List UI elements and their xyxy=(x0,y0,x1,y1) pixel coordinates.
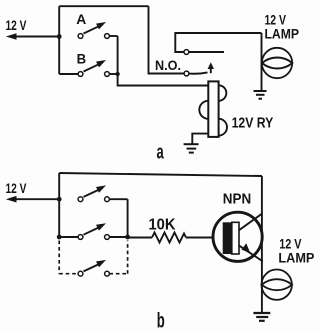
wire: rail drop to relay contact (a) xyxy=(149,6,185,73)
svg-text:NPN: NPN xyxy=(223,191,251,208)
relay contact N.O. (a) xyxy=(184,50,224,76)
wire: dashed bus extension right (b) xyxy=(127,241,129,274)
wire: S1 output (b) xyxy=(109,198,127,200)
svg-text:B: B xyxy=(77,50,87,66)
wire: right bus joining A and B outputs (a) xyxy=(118,36,209,86)
wire: switch A output (a) xyxy=(109,35,117,37)
arrowhead: to 12V supply (a) xyxy=(6,33,17,40)
svg-text:12V RY: 12V RY xyxy=(232,116,274,132)
switch S1 (b) xyxy=(78,185,109,201)
svg-text:N.O.: N.O. xyxy=(155,58,181,74)
switch B xyxy=(78,60,109,76)
svg-text:LAMP: LAMP xyxy=(278,250,314,266)
wire: dashed S3 input (b) xyxy=(59,273,78,275)
junction: S2 output node (b) xyxy=(125,235,130,240)
wire: top rail (b) xyxy=(59,173,262,176)
junction: 12V node (a) xyxy=(57,34,62,39)
junction: bus at S2 input (b) xyxy=(57,235,62,240)
wire: relay coil to ground (a) xyxy=(192,134,208,144)
wire: resistor to base (b) xyxy=(186,237,223,239)
svg-text:12 V: 12 V xyxy=(6,180,27,196)
wire: top rail (a) xyxy=(59,5,148,7)
wire: 12V feed line (b) xyxy=(13,198,59,200)
resistor R1 10K xyxy=(152,233,186,243)
svg-text:a: a xyxy=(157,141,165,163)
wire: right bus S1 to S2 (b) xyxy=(127,199,129,237)
switch A xyxy=(78,22,109,38)
wire: switch B input (a) xyxy=(59,73,78,75)
wire: fixed contact to lamp rail (a) xyxy=(175,33,261,52)
svg-text:A: A xyxy=(76,11,86,27)
svg-text:LAMP: LAMP xyxy=(265,26,300,42)
switch S2 (b) xyxy=(78,223,109,239)
svg-text:12 V: 12 V xyxy=(6,17,27,33)
wire: dashed S3 output (b) xyxy=(109,273,127,275)
wire: 12V feed line (a) xyxy=(13,36,59,38)
lamp I2 (b) xyxy=(262,270,293,300)
svg-text:10K: 10K xyxy=(149,217,177,234)
lamp I1 (a) xyxy=(262,48,293,78)
wire: dashed bus extension left (b) xyxy=(58,241,60,274)
relay coil 12V RY xyxy=(199,81,227,136)
wire: left vertical bus (b) xyxy=(58,173,60,237)
ground: emitter (b) xyxy=(253,313,270,321)
wire: left vertical bus (a) xyxy=(58,6,60,74)
wire: switch B output (a) xyxy=(109,73,117,75)
wire: S2 input (b) xyxy=(59,236,78,238)
wire: collector/emitter vertical from rail to ground (b) xyxy=(261,176,263,312)
wire: S2 output (b) xyxy=(109,236,127,238)
switch S3 optional (b) xyxy=(78,260,109,276)
junction: A/B output node (a) xyxy=(115,72,119,76)
wire: bus to resistor (b) xyxy=(128,237,152,239)
ground: lamp (a) xyxy=(254,91,267,99)
svg-text:b: b xyxy=(157,310,165,330)
ground: relay (a) xyxy=(184,144,199,152)
transistor Q1 NPN xyxy=(213,212,263,261)
arrowhead: to 12V supply (b) xyxy=(6,196,17,203)
wire: lamp drop (a) xyxy=(261,33,263,91)
junction: 12V node (b) xyxy=(57,197,62,202)
